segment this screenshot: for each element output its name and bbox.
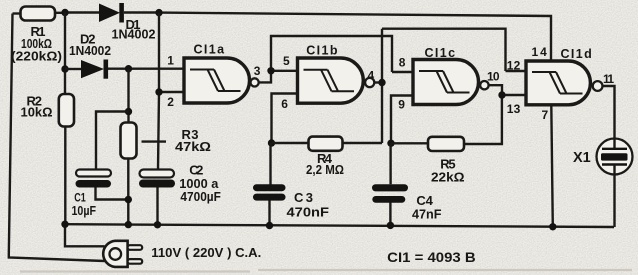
svg-text:1N4002: 1N4002 xyxy=(112,26,156,41)
R3 label leader dash xyxy=(142,140,167,142)
svg-text:13: 13 xyxy=(507,102,521,116)
svg-text:CI1a: CI1a xyxy=(194,43,226,57)
svg-text:2: 2 xyxy=(167,95,174,109)
node rail C4 xyxy=(387,222,394,229)
wire X1 bottom to rail xyxy=(613,165,615,228)
diode D2 xyxy=(81,60,108,79)
svg-text:C1: C1 xyxy=(74,191,86,205)
capacitor C2 plate - xyxy=(139,180,175,188)
resistor R1 xyxy=(21,7,56,21)
bubble CI1b output xyxy=(365,78,374,87)
node rail/R2/plug xyxy=(61,221,68,228)
capacitor C1 plate + xyxy=(76,170,111,177)
nand gate CI1b xyxy=(298,58,364,103)
wire R4 left xyxy=(272,142,310,144)
transducer X1 body xyxy=(597,139,633,175)
svg-text:CI1c: CI1c xyxy=(425,46,457,60)
resistor R5 xyxy=(428,137,464,151)
wire rail to plug upper xyxy=(65,224,105,246)
wire CI1d out to X1 xyxy=(602,86,614,149)
AC plug prong 1 xyxy=(128,245,143,250)
svg-text:14: 14 xyxy=(532,45,549,59)
wire CI1a out to pin5 node and pin 8 xyxy=(259,36,412,82)
svg-text:(220kΩ): (220kΩ) xyxy=(11,49,62,64)
svg-text:12: 12 xyxy=(507,58,521,72)
node B (top rail / C2 branch) xyxy=(155,9,162,16)
capacitor C3 plate 2 xyxy=(253,194,286,201)
capacitor C4 plate 1 xyxy=(372,184,408,191)
svg-text:10kΩ: 10kΩ xyxy=(21,105,53,120)
svg-text:3: 3 xyxy=(254,64,261,78)
wire left rail from R1 down to plug xyxy=(9,14,105,262)
svg-text:10: 10 xyxy=(487,70,500,84)
svg-text:470nF: 470nF xyxy=(287,205,330,220)
capacitor C4 plate 2 xyxy=(372,196,405,203)
X1 top plate xyxy=(602,148,627,150)
node C1/R3 join xyxy=(125,196,132,203)
node D2 anode tee xyxy=(61,65,68,72)
node C1 branch tee xyxy=(125,108,132,115)
bubble CI1a output xyxy=(251,78,259,86)
svg-text:4: 4 xyxy=(368,69,375,83)
node pin3/pin5/pin8 xyxy=(267,67,274,74)
resistor R3 xyxy=(121,123,137,159)
node pin9/R5/C4 xyxy=(387,140,394,147)
wire pin 7 down to rail xyxy=(551,105,553,227)
wire R3 bottom to rail xyxy=(127,159,129,225)
node pin2/C2 tee xyxy=(155,88,162,95)
X1 bottom plate xyxy=(602,163,627,165)
wire CI1b out to CI1d pin 12 xyxy=(382,29,527,71)
node rail C3 xyxy=(266,222,273,229)
wire VDD vertical to pin 2 and C2 xyxy=(158,13,183,170)
svg-text:CI1 = 4093 B: CI1 = 4093 B xyxy=(387,250,476,265)
nand gate CI1a xyxy=(184,58,250,103)
node pin4 xyxy=(378,79,385,86)
wire CI1b pin 6 down to R4 node xyxy=(272,94,297,144)
wire vertical to D2 and R2 xyxy=(64,13,66,95)
wire D2 anode xyxy=(65,68,81,70)
node rail C2 xyxy=(154,221,161,228)
svg-text:4700µF: 4700µF xyxy=(180,189,221,204)
node pin6/R4/C3 xyxy=(268,139,275,146)
svg-text:1: 1 xyxy=(167,54,174,68)
capacitor C3 plate 1 xyxy=(253,184,286,191)
wire D1 anode xyxy=(65,11,99,13)
bubble CI1d output xyxy=(593,81,603,91)
scan streak bottom xyxy=(20,270,632,272)
svg-text:CI1b: CI1b xyxy=(306,43,339,57)
wire R4 right up to pin4 node xyxy=(342,142,382,144)
wire node down to R3 xyxy=(127,69,129,123)
nand gate CI1c xyxy=(413,60,479,105)
svg-text:9: 9 xyxy=(398,98,405,112)
wire C4 branch down xyxy=(389,143,392,225)
wire C2 bottom to rail xyxy=(156,188,158,225)
wire top rail to pin 14 xyxy=(159,13,551,62)
svg-text:10µF: 10µF xyxy=(72,204,97,218)
diode D1 xyxy=(99,3,124,23)
wire pin4 node vertical xyxy=(381,29,383,143)
node rail pin7 xyxy=(549,223,556,230)
wire CI1b out stub xyxy=(374,81,382,83)
svg-text:X1: X1 xyxy=(573,150,591,166)
node rail R3 xyxy=(125,221,132,228)
svg-text:5: 5 xyxy=(283,54,290,68)
svg-text:47nF: 47nF xyxy=(412,206,442,221)
wire R2 bottom to rail xyxy=(64,127,66,225)
wire R1 to node xyxy=(55,12,65,14)
svg-text:6: 6 xyxy=(281,97,288,111)
wire bottom rail xyxy=(65,224,614,227)
X1 middle bar xyxy=(601,153,628,160)
svg-text:110V ( 220V ) C.A.: 110V ( 220V ) C.A. xyxy=(151,245,261,260)
svg-text:22kΩ: 22kΩ xyxy=(431,170,465,185)
wire D2 cathode to CI1a pin 1 xyxy=(108,67,183,69)
svg-text:CI1d: CI1d xyxy=(561,47,594,61)
capacitor C2 plate + xyxy=(140,170,175,178)
wire R1 left stub xyxy=(13,12,21,14)
wire R5 left xyxy=(391,142,428,144)
nand gate CI1d xyxy=(526,61,590,105)
node pin13 xyxy=(498,91,505,98)
wire CI1c pin 9 down to R5 node xyxy=(391,96,412,144)
wire C1 bottom to R3 branch xyxy=(96,188,129,200)
svg-text:2,2 MΩ: 2,2 MΩ xyxy=(306,162,344,177)
node A (R1/D1/R2 branch) xyxy=(61,9,68,16)
svg-text:11: 11 xyxy=(603,72,614,86)
bubble CI1c output xyxy=(480,81,488,89)
svg-text:47kΩ: 47kΩ xyxy=(175,139,211,154)
wire C1 branch xyxy=(96,112,129,170)
resistor R4 xyxy=(309,137,343,151)
AC plug prong 2 xyxy=(128,259,143,264)
svg-text:1N4002: 1N4002 xyxy=(69,43,111,58)
svg-text:8: 8 xyxy=(399,56,406,70)
svg-text:7: 7 xyxy=(542,108,549,122)
wire CI1c out to pin 13 xyxy=(489,85,527,95)
node D2/R3/C1/pin1 xyxy=(125,65,132,72)
wire R5 right up to pin 13 node xyxy=(464,95,502,144)
AC plug body xyxy=(103,241,127,267)
resistor R2 xyxy=(59,94,74,127)
capacitor C1 plate - xyxy=(76,180,112,188)
wire D1 cathode to node xyxy=(124,11,159,13)
wire C3 branch down xyxy=(270,143,271,226)
